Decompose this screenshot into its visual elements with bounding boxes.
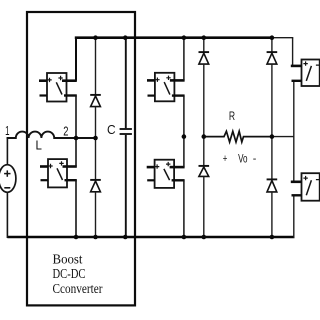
svg-text:1: 1 [5,124,9,138]
resistor R [204,131,272,142]
junction top rail at D1 [93,35,98,40]
boost converter box [27,12,135,305]
wire branch boost switches upper [75,37,77,81]
switch S2 boost lower [40,159,77,187]
junction bottom rail at S4 [182,235,187,240]
wire source top [6,137,8,165]
svg-text:DC-DC: DC-DC [53,267,86,282]
wire right leg upper feeder [292,38,294,66]
svg-text:Boost: Boost [53,253,83,268]
junction load wire at S branch [182,134,187,139]
junction bottom rail at D4 [202,235,207,240]
wire right leg mid [293,81,295,182]
wire top rail thin extension [272,37,293,39]
label Boost DC-DC Cconverter [53,253,103,298]
wire branch middle switches mid [183,96,185,168]
diode D4 middle lower [199,137,210,237]
wire branch boost switches lower [75,180,77,237]
junction bottom rail at S2 [74,235,79,240]
capacitor C [120,38,132,237]
junction top rail at D5 [270,35,275,40]
junction bottom rail at C [123,235,128,240]
junction node2 at switch branch [74,136,79,141]
switch S1 boost upper [39,73,77,102]
svg-text:C: C [107,122,116,137]
diode D6 right lower [267,137,278,237]
svg-text:-: - [253,153,257,165]
switch S4 middle lower [147,160,185,188]
switch S3 middle upper [147,73,185,102]
wire right leg lower [293,195,295,238]
junction load wire at D4 [202,134,207,139]
junction top rail at C [123,35,128,40]
switch S6 right lower [291,173,320,201]
diode D5 right upper [267,38,278,137]
junction load wire at D6 [270,134,275,139]
label + Vo - [223,153,257,166]
switch S5 right upper [291,60,320,87]
wire load to right leg [272,136,294,138]
wire bottom rail [7,236,294,239]
svg-text:Vo: Vo [238,153,247,165]
wire branch middle switches lower [183,180,185,237]
voltage source Vin [0,165,16,193]
wire top rail [75,36,272,39]
diode D3 middle upper [199,38,210,137]
svg-text:2: 2 [63,124,68,138]
wire source bottom [6,192,8,238]
junction top rail at D3 [202,35,207,40]
svg-text:Cconverter: Cconverter [53,282,103,297]
diode D2 boost lower [90,138,101,237]
junction node2 at diode branch [93,136,98,141]
diode D1 boost upper [90,38,101,138]
wire branch middle switches upper [183,37,185,81]
junction top rail at S3 branch [182,35,187,40]
junction bottom rail at D2 [93,235,98,240]
inductor L [7,132,96,138]
svg-text:+: + [223,153,228,165]
junction bottom rail at D6 [270,235,275,240]
svg-text:R: R [229,109,235,123]
svg-text:L: L [36,138,42,153]
wire branch boost switches mid [75,96,77,167]
